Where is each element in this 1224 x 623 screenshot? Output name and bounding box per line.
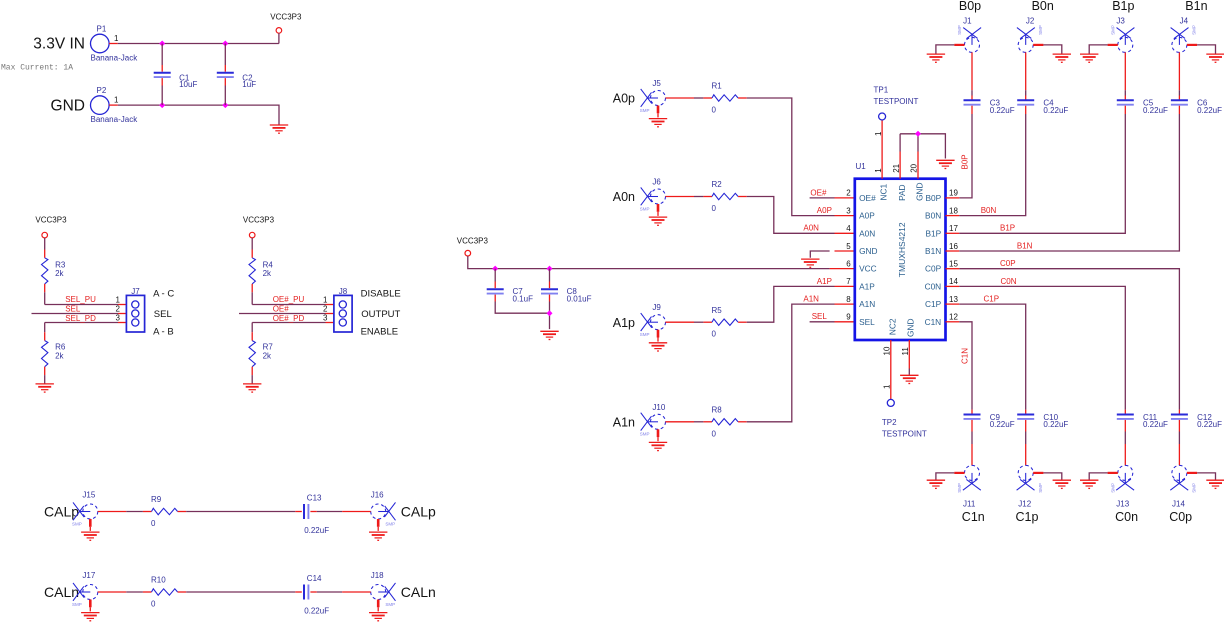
svg-text:13: 13 (949, 295, 958, 304)
wire C9 to J11 (971, 432, 973, 445)
svg-text:B1N: B1N (1017, 241, 1033, 250)
svg-text:R7: R7 (263, 343, 274, 352)
svg-text:B1n: B1n (1185, 0, 1207, 13)
resistor R9 (152, 508, 178, 514)
wire GND pin 5 (810, 251, 829, 258)
wire to ground J4 (1197, 45, 1215, 54)
wire J1 to cap (971, 90, 973, 95)
svg-text:U1: U1 (856, 162, 867, 171)
ground below R6 (36, 384, 54, 392)
wire from C1 (161, 86, 163, 106)
banana jack P1 (91, 34, 110, 53)
svg-text:10: 10 (883, 346, 892, 355)
svg-text:17: 17 (949, 224, 958, 233)
svg-text:C1N: C1N (960, 348, 969, 364)
svg-text:0: 0 (151, 600, 156, 609)
svg-text:J5: J5 (652, 79, 661, 88)
wire pin 2 net (239, 313, 326, 315)
pin stub R9 right (178, 511, 187, 513)
pin stub R10 left (143, 591, 152, 593)
pin stub C1 top (161, 65, 163, 72)
ground pin J15 (89, 519, 92, 527)
pin stub C3 bottom (971, 106, 973, 114)
ground pin J9 (657, 330, 660, 338)
connector J13 (SMP) (1116, 465, 1134, 490)
svg-text:A0n: A0n (613, 190, 635, 204)
ground pin J4 (1187, 44, 1197, 46)
capacitor C8 (541, 289, 558, 293)
svg-text:CALn: CALn (44, 584, 79, 600)
wire resistor to ground (44, 375, 46, 384)
svg-text:SEL: SEL (859, 317, 875, 327)
svg-text:TP2: TP2 (882, 418, 897, 427)
testpoint TP1 (879, 113, 886, 120)
svg-text:4: 4 (846, 224, 851, 233)
ground stem J17 (89, 607, 91, 611)
ground pin J14 (1187, 472, 1197, 474)
junction at C7 (492, 266, 498, 272)
svg-text:J11: J11 (963, 499, 976, 508)
pin stub P2 (109, 104, 118, 106)
wire to ground J12 (1043, 473, 1061, 480)
pin line J14 up (1178, 444, 1180, 465)
pin stub U1 pin 8 (835, 303, 855, 305)
pin stub C2 bottom (224, 78, 226, 85)
svg-text:11: 11 (901, 347, 910, 356)
header J7 (126, 295, 144, 332)
svg-text:CALn: CALn (401, 584, 436, 600)
pin stub R8 left (703, 421, 712, 423)
svg-text:J12: J12 (1018, 499, 1031, 508)
pin stub U1 pin 13 (946, 303, 960, 305)
svg-text:0.22uF: 0.22uF (990, 420, 1015, 429)
svg-text:0.01uF: 0.01uF (567, 294, 592, 303)
wire C1P net (959, 304, 1025, 410)
pin stub R1 right (738, 97, 747, 99)
pin stub U1 pin 12 (946, 321, 960, 323)
svg-text:J8: J8 (339, 287, 348, 296)
svg-text:8: 8 (846, 295, 851, 304)
pin stub C8 top (549, 282, 551, 289)
pin stub C6 bottom (1178, 106, 1180, 114)
capacitor C1 (154, 73, 171, 77)
svg-text:B0P: B0P (926, 193, 942, 203)
svg-text:SMP: SMP (640, 108, 650, 113)
capacitor C5 (1117, 100, 1134, 104)
svg-text:A1n: A1n (613, 415, 635, 429)
ground pin J18 (377, 600, 380, 608)
svg-text:TP1: TP1 (874, 86, 889, 95)
svg-text:SMP: SMP (1038, 25, 1043, 35)
svg-text:C1n: C1n (962, 510, 985, 524)
svg-text:2: 2 (116, 304, 121, 313)
wire pin3 to resistor (44, 323, 46, 333)
svg-text:J9: J9 (652, 303, 661, 312)
connector J3 (SMP) (1117, 28, 1135, 53)
pin stub C13 left (295, 511, 302, 513)
svg-text:VCC: VCC (859, 264, 877, 274)
svg-text:0.22uF: 0.22uF (304, 607, 329, 616)
svg-text:OE#: OE# (273, 305, 290, 314)
connector J16 (SMP) (371, 502, 396, 520)
ground symbol J1 (927, 54, 945, 62)
svg-text:12: 12 (949, 313, 958, 322)
pin stub C10 top (1025, 410, 1027, 415)
svg-text:7: 7 (846, 277, 851, 286)
svg-text:B0p: B0p (959, 0, 981, 13)
wire pin 3 net (252, 322, 325, 324)
svg-text:5: 5 (846, 242, 851, 251)
svg-text:0.22uF: 0.22uF (1143, 420, 1168, 429)
pin stub J10 (666, 421, 695, 423)
wire to ground J13 (1089, 473, 1107, 480)
pin stub R4 bottom (251, 284, 253, 292)
wire to ground J14 (1197, 473, 1215, 480)
pin stub C14 left (295, 591, 302, 593)
svg-text:J16: J16 (371, 491, 384, 500)
resistor R3 (42, 258, 48, 284)
pin stub J16 (342, 511, 371, 513)
svg-text:J14: J14 (1172, 499, 1185, 508)
svg-text:0.22uF: 0.22uF (1197, 106, 1222, 115)
connector J17 (SMP) (73, 583, 98, 601)
svg-text:J15: J15 (82, 491, 95, 500)
pin stub U1 pin 17 (946, 232, 960, 234)
power terminal VCC3P3 (J8) (249, 232, 255, 238)
pin stub header pin1 (118, 304, 126, 306)
wire J10 to R8 (694, 421, 703, 423)
wire to C2 (224, 44, 226, 66)
svg-text:0: 0 (712, 429, 717, 438)
wire J5 to R1 (694, 97, 703, 99)
svg-text:R9: R9 (151, 495, 162, 504)
testpoint TP2 (887, 399, 894, 406)
pin stub U1 pin 16 (946, 250, 960, 252)
pin stub U1 pin 6 (830, 268, 855, 270)
pin stub C12 top (1178, 410, 1180, 415)
ground symbol J11 (927, 480, 945, 488)
svg-text:SMP: SMP (72, 602, 82, 607)
svg-text:J10: J10 (652, 403, 665, 412)
ground symbol J12 (1053, 480, 1071, 488)
ground symbol J10 (649, 442, 667, 450)
banana jack P2 (91, 96, 110, 115)
svg-text:3: 3 (323, 313, 328, 322)
wire from terminal (251, 238, 253, 250)
svg-text:SEL_PD: SEL_PD (65, 314, 96, 323)
wire pin 11 to ground (908, 369, 910, 375)
pin stub R9 left (143, 511, 152, 513)
svg-text:1uF: 1uF (242, 80, 256, 89)
pin stub R6 top (44, 332, 46, 340)
connector J2 (SMP) (1017, 28, 1035, 53)
svg-text:R6: R6 (55, 343, 66, 352)
ground pin J12 (1033, 472, 1043, 474)
pin stub U1 pin 4 (835, 232, 855, 234)
pin line J4 down (1178, 52, 1180, 90)
ground symbol J17 (81, 613, 99, 621)
svg-text:OE#_PD: OE#_PD (273, 314, 305, 323)
ground below R7 (243, 384, 261, 392)
svg-text:GND: GND (51, 98, 85, 115)
capacitor C13 (304, 504, 308, 519)
capacitor C2 (217, 73, 234, 77)
wire PAD-GND net (900, 134, 945, 159)
wire C0N net (959, 286, 1125, 409)
pin stub C8 bottom (549, 295, 551, 302)
connector J4 (SMP) (1171, 28, 1189, 53)
wire J3 to cap (1124, 90, 1126, 95)
wire C1N net (959, 322, 972, 410)
pin line J13 up (1124, 444, 1126, 465)
svg-text:A1P: A1P (817, 277, 832, 286)
svg-text:0.22uF: 0.22uF (1043, 420, 1068, 429)
pin stub header pin3 (118, 322, 126, 324)
svg-text:0.22uF: 0.22uF (1143, 106, 1168, 115)
ground symbol J13 (1080, 480, 1098, 488)
wire pin 2 net (32, 313, 119, 315)
svg-text:2k: 2k (55, 269, 64, 278)
svg-text:SMP: SMP (1192, 483, 1197, 493)
resistor R1 (712, 95, 738, 101)
svg-text:CALp: CALp (44, 504, 79, 520)
svg-text:21: 21 (892, 163, 901, 172)
junction C8 ground net (547, 310, 553, 316)
svg-text:J18: J18 (371, 571, 384, 580)
pin stub U1 pin 9 (835, 321, 855, 323)
pin stub header pin3 (326, 322, 334, 324)
svg-text:GND: GND (906, 318, 916, 336)
svg-text:SEL: SEL (65, 305, 81, 314)
connector J12 (SMP) (1017, 465, 1035, 490)
svg-text:SMP: SMP (72, 521, 82, 526)
svg-text:3.3V IN: 3.3V IN (33, 36, 85, 53)
svg-text:B1P: B1P (926, 228, 942, 238)
svg-text:0: 0 (712, 106, 717, 115)
svg-text:19: 19 (949, 189, 958, 198)
capacitor C7 (487, 289, 504, 293)
pin stub R5 left (703, 321, 712, 323)
pin stub U1 pin 21 (899, 152, 901, 179)
wire SEL net (810, 321, 835, 323)
pin stub C13 right (310, 511, 316, 513)
svg-text:OE#: OE# (810, 188, 827, 197)
wire pin 21 up (899, 134, 901, 152)
svg-text:SEL_PU: SEL_PU (65, 295, 96, 304)
svg-text:A0P: A0P (817, 206, 832, 215)
svg-text:R10: R10 (151, 576, 166, 585)
capacitor C10 (1017, 415, 1034, 419)
svg-text:SMP: SMP (640, 432, 650, 437)
wire A1P net (747, 286, 835, 322)
pin stub C10 bottom (1025, 420, 1027, 432)
wire C13 to J16 (317, 511, 342, 513)
pin stub C5 bottom (1124, 106, 1126, 114)
svg-text:ENABLE: ENABLE (361, 327, 399, 338)
wire OE# net (810, 197, 835, 199)
wire to ground J3 (1089, 45, 1107, 54)
svg-text:C0N: C0N (1001, 277, 1017, 286)
svg-text:J1: J1 (963, 16, 972, 25)
pin stub header pin1 (326, 304, 334, 306)
pin stub U1 pin 11 (908, 340, 910, 369)
svg-text:SEL: SEL (812, 312, 828, 321)
svg-text:J13: J13 (1116, 499, 1129, 508)
capacitor C6 (1171, 100, 1188, 104)
svg-text:2: 2 (323, 304, 328, 313)
power terminal VCC3P3 (J7) (42, 232, 48, 238)
svg-text:SMP: SMP (957, 25, 962, 35)
svg-text:SMP: SMP (385, 521, 395, 526)
svg-text:SMP: SMP (1110, 25, 1115, 35)
svg-text:R8: R8 (712, 406, 723, 415)
ground of input rail (270, 125, 288, 133)
pin stub C12 bottom (1178, 420, 1180, 432)
pin stub J6 (666, 196, 695, 198)
wire C3 to U1 pin 19 (959, 114, 972, 198)
cap stub top (1025, 96, 1027, 101)
svg-text:SMP: SMP (1038, 483, 1043, 493)
pin stub U1 pin 19 (946, 197, 960, 199)
svg-text:C0N: C0N (925, 281, 942, 291)
wire GND rail (118, 105, 279, 125)
svg-text:VCC3P3: VCC3P3 (243, 216, 275, 225)
svg-text:J6: J6 (652, 178, 661, 187)
pin stub J18 (342, 591, 371, 593)
pin stub J17 (98, 591, 127, 593)
wire to C8 (549, 269, 551, 282)
svg-text:J2: J2 (1026, 16, 1035, 25)
junction at C8 (547, 266, 553, 272)
pin stub J5 (666, 97, 695, 99)
svg-text:DISABLE: DISABLE (361, 289, 401, 300)
capacitor C4 (1017, 100, 1034, 104)
svg-text:1: 1 (882, 384, 891, 389)
svg-text:B0N: B0N (981, 206, 997, 215)
wire R10 to C14 (186, 591, 295, 593)
svg-text:1: 1 (114, 34, 119, 43)
svg-text:VCC3P3: VCC3P3 (35, 216, 67, 225)
svg-text:1: 1 (116, 295, 121, 304)
ground at U1 pin 5 (801, 259, 819, 267)
wire R9 to C13 (186, 511, 295, 513)
connector J10 (SMP) (641, 413, 666, 431)
wire C4 to U1 pin 18 (959, 114, 1025, 216)
wire J9 to R5 (694, 321, 703, 323)
svg-text:1: 1 (114, 95, 119, 104)
resistor R7 (249, 341, 255, 367)
ground right of TP1 (936, 160, 954, 168)
svg-text:C0n: C0n (1115, 510, 1138, 524)
svg-text:2: 2 (846, 189, 851, 198)
svg-text:TESTPOINT: TESTPOINT (882, 430, 927, 439)
wire pin 1 net (252, 304, 325, 306)
svg-text:R5: R5 (712, 306, 723, 315)
svg-text:R1: R1 (712, 82, 723, 91)
ground symbol J6 (649, 217, 667, 225)
pin stub C14 right (310, 591, 316, 593)
svg-text:SMP: SMP (640, 332, 650, 337)
pin stub C11 top (1124, 410, 1126, 415)
wire C12 to J14 (1178, 432, 1180, 445)
wire from C2 (224, 86, 226, 106)
svg-text:C1N: C1N (925, 317, 942, 327)
junction PAD/GND net (915, 131, 921, 137)
svg-text:TMUXHS4212: TMUXHS4212 (897, 222, 907, 277)
wire A0P net (747, 98, 835, 216)
pin stub U1 pin 18 (946, 215, 960, 217)
op-amp U1 TMUXHS4212 body (855, 179, 946, 340)
pin stub C4 bottom (1025, 106, 1027, 114)
pin stub R7 top (251, 332, 253, 340)
ground below C8 (540, 331, 558, 339)
pin stub C2 top (224, 65, 226, 72)
wire to C7 (494, 269, 496, 282)
junction at C1 bottom (159, 102, 165, 108)
svg-text:Banana-Jack: Banana-Jack (91, 115, 139, 124)
svg-text:C13: C13 (307, 494, 322, 503)
pin stub C9 top (971, 410, 973, 415)
svg-text:A1N: A1N (859, 299, 875, 309)
svg-text:10uF: 10uF (179, 80, 197, 89)
svg-text:0.22uF: 0.22uF (1043, 106, 1068, 115)
wire to ground J2 (1043, 45, 1061, 54)
svg-text:0.22uF: 0.22uF (990, 106, 1015, 115)
pin line J11 up (971, 444, 973, 465)
wire C8 bottom to ground (549, 302, 551, 330)
svg-text:0: 0 (151, 519, 156, 528)
svg-text:A1P: A1P (859, 281, 875, 291)
svg-text:SMP: SMP (957, 483, 962, 493)
wire pin 1 net (45, 304, 118, 306)
wire J6 to R2 (694, 196, 703, 198)
svg-text:B1N: B1N (925, 246, 941, 256)
svg-text:PAD: PAD (897, 184, 907, 200)
capacitor C12 (1171, 415, 1188, 419)
svg-text:A0p: A0p (613, 92, 635, 106)
svg-text:Max Current: 1A: Max Current: 1A (1, 64, 73, 73)
svg-text:A - C: A - C (153, 289, 174, 300)
cap stub top (971, 96, 973, 101)
ground below pin 11 (900, 375, 918, 383)
resistor R5 (712, 319, 738, 325)
pin stub C7 top (494, 282, 496, 289)
svg-text:0.22uF: 0.22uF (304, 526, 329, 535)
ground stem J16 (377, 527, 379, 531)
svg-text:0.22uF: 0.22uF (1197, 420, 1222, 429)
svg-text:NC2: NC2 (887, 318, 897, 335)
pin stub C9 bottom (971, 420, 973, 432)
capacitor C14 (304, 585, 308, 600)
resistor R2 (712, 193, 738, 199)
pin stub U1 pin 3 (835, 215, 855, 217)
ground pin J10 (657, 429, 660, 437)
svg-text:A1N: A1N (803, 295, 819, 304)
ground pin J11 (954, 472, 964, 474)
capacitor C11 (1117, 415, 1134, 419)
connector J9 (SMP) (641, 313, 666, 331)
ground symbol J5 (649, 119, 667, 127)
header J8 (334, 295, 352, 332)
ground stem J10 (657, 437, 659, 441)
svg-text:6: 6 (846, 260, 851, 269)
svg-text:A1p: A1p (613, 316, 635, 330)
svg-text:Banana-Jack: Banana-Jack (91, 53, 139, 62)
wire VCC rail to pin 6 (468, 256, 830, 269)
svg-text:B0n: B0n (1032, 0, 1054, 13)
connector J11 (SMP) (963, 465, 981, 490)
pin stub J9 (666, 321, 695, 323)
